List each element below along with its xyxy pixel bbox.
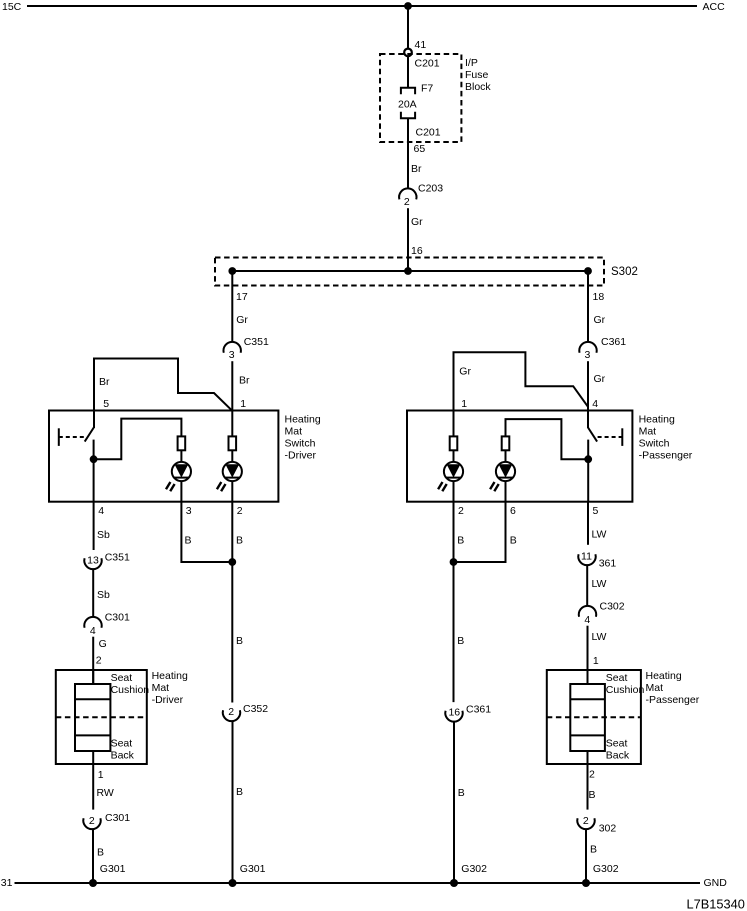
resistor in LED4 branch bbox=[502, 436, 510, 450]
wire driver pin 4 to C351-13 bbox=[93, 502, 95, 550]
wire 361-11 to C302-4 bbox=[586, 565, 588, 606]
svg-text:G: G bbox=[99, 638, 107, 650]
fuse F7 bottom bracket bbox=[401, 112, 415, 119]
svg-text:Gr: Gr bbox=[459, 366, 471, 378]
fuse F7 top bracket bbox=[401, 88, 415, 95]
svg-text:B: B bbox=[457, 535, 464, 547]
svg-text:2: 2 bbox=[89, 815, 95, 827]
svg-text:Heating: Heating bbox=[639, 414, 675, 426]
switch actuator dashed link passenger bbox=[598, 436, 623, 438]
connector C361 pin 16 cup bbox=[445, 711, 462, 722]
junction ground G301 left bbox=[89, 879, 97, 887]
svg-text:Br: Br bbox=[99, 376, 110, 388]
svg-text:B: B bbox=[236, 786, 243, 798]
resistor in LED1 branch bbox=[178, 436, 186, 450]
element divider 2 bbox=[75, 734, 110, 736]
wire C301-4 to seat module driver bbox=[92, 637, 94, 684]
wire common to LED4 branch bbox=[506, 419, 589, 459]
wire C301-2 to ground G301 bbox=[92, 829, 94, 883]
wire pin1 to resistor 3 bbox=[453, 411, 455, 437]
svg-text:2: 2 bbox=[96, 655, 102, 667]
element divider 1 bbox=[75, 698, 110, 700]
svg-text:Seat: Seat bbox=[111, 672, 133, 684]
junction ground G301 right bbox=[229, 879, 237, 887]
heating mat switch passenger box bbox=[407, 411, 632, 502]
svg-text:1: 1 bbox=[98, 769, 104, 781]
wire from pin41 to fuse F7 bbox=[407, 57, 409, 89]
svg-text:3: 3 bbox=[229, 349, 235, 361]
switch actuator tick passenger bbox=[621, 428, 623, 446]
svg-text:Mat: Mat bbox=[152, 682, 170, 694]
wire resistor to LED4 bbox=[505, 450, 507, 501]
svg-text:Back: Back bbox=[606, 750, 630, 762]
svg-text:-Passenger: -Passenger bbox=[639, 450, 693, 462]
svg-text:Seat: Seat bbox=[606, 738, 628, 750]
svg-text:B: B bbox=[589, 789, 596, 801]
svg-text:Heating: Heating bbox=[646, 670, 682, 682]
svg-text:Sb: Sb bbox=[97, 589, 110, 601]
wire passenger pin 5 to 361-11 bbox=[587, 502, 589, 545]
junction switch common driver bbox=[90, 455, 98, 463]
svg-text:2: 2 bbox=[228, 706, 234, 718]
LED D1 bbox=[166, 462, 191, 491]
wire resistor to LED3 bbox=[453, 450, 455, 501]
svg-text:302: 302 bbox=[599, 823, 617, 835]
svg-text:C351: C351 bbox=[244, 336, 269, 348]
switch actuator tick driver bbox=[58, 428, 60, 446]
svg-text:Back: Back bbox=[111, 750, 135, 762]
junction ground G302 right bbox=[582, 879, 590, 887]
svg-text:17: 17 bbox=[236, 291, 248, 303]
svg-text:-Driver: -Driver bbox=[152, 694, 184, 706]
svg-text:B: B bbox=[510, 535, 517, 547]
wire passenger pin 2 down to C361-16 bbox=[453, 502, 455, 702]
splice bus wire bbox=[232, 270, 588, 272]
wire stub into seat element top bbox=[92, 670, 94, 684]
wire jog from switch pin 5 to pin 1 bbox=[94, 359, 232, 411]
svg-text:1: 1 bbox=[593, 655, 599, 667]
switch blade driver bbox=[85, 428, 94, 442]
svg-text:B: B bbox=[236, 635, 243, 647]
resistor in LED2 branch bbox=[229, 436, 237, 450]
wire from top rail to fuse block pin 41 bbox=[407, 6, 409, 48]
svg-text:G301: G301 bbox=[240, 863, 266, 875]
dashed cushion/back divider driver bbox=[56, 716, 147, 718]
svg-text:1: 1 bbox=[240, 398, 246, 410]
connector circle pin 41 C201 bbox=[404, 49, 412, 57]
svg-text:B: B bbox=[590, 844, 597, 856]
svg-text:4: 4 bbox=[584, 614, 590, 626]
svg-text:B: B bbox=[185, 535, 192, 547]
svg-text:Br: Br bbox=[239, 375, 250, 387]
wire top power rail 15C-ACC bbox=[27, 5, 697, 7]
svg-text:C361: C361 bbox=[601, 336, 626, 348]
svg-text:G302: G302 bbox=[461, 863, 487, 875]
svg-text:31: 31 bbox=[1, 877, 13, 889]
svg-text:C351: C351 bbox=[105, 552, 130, 564]
svg-text:2: 2 bbox=[583, 815, 589, 827]
LED D3 bbox=[438, 462, 463, 491]
seat heating element driver bbox=[75, 684, 110, 751]
svg-text:C203: C203 bbox=[418, 183, 443, 195]
connector C351 pin 13 cup bbox=[84, 558, 101, 569]
svg-text:Mat: Mat bbox=[646, 682, 664, 694]
svg-text:B: B bbox=[458, 787, 465, 799]
svg-text:Heating: Heating bbox=[152, 670, 188, 682]
connector 361 pin 11 cup bbox=[578, 554, 595, 565]
junction switch common passenger bbox=[584, 455, 592, 463]
svg-text:C301: C301 bbox=[105, 812, 130, 824]
svg-text:Gr: Gr bbox=[411, 216, 423, 228]
connector C203 cap bbox=[399, 188, 416, 199]
svg-text:2: 2 bbox=[458, 505, 464, 517]
switch blade passenger bbox=[588, 428, 597, 442]
svg-text:C302: C302 bbox=[600, 601, 625, 613]
svg-text:ACC: ACC bbox=[703, 1, 726, 13]
wire switch common to pin 4 bbox=[93, 440, 95, 502]
wire S302 pin 18 down to C361 bbox=[587, 271, 589, 342]
wire resistor to LED2 bbox=[231, 450, 233, 501]
wire from fuse to C203 bbox=[407, 118, 409, 189]
svg-text:6: 6 bbox=[510, 505, 516, 517]
wire C351-3 to switch pin 1 bbox=[231, 361, 233, 411]
svg-text:16: 16 bbox=[448, 707, 460, 719]
svg-text:LW: LW bbox=[592, 529, 607, 541]
connector C351 pin 3 cap bbox=[223, 342, 240, 353]
svg-text:Br: Br bbox=[411, 163, 422, 175]
wire C203 to S302 bbox=[407, 208, 409, 271]
wire resistor to LED1 bbox=[180, 450, 182, 501]
svg-text:L7B15340: L7B15340 bbox=[687, 897, 745, 911]
svg-text:-Passenger: -Passenger bbox=[646, 694, 700, 706]
wire passenger pin 6 to pin 2 join bbox=[454, 502, 506, 562]
wire driver pin 2 down to C352 bbox=[231, 502, 233, 703]
svg-text:LW: LW bbox=[592, 631, 607, 643]
junction S302 left bbox=[228, 267, 236, 275]
wire seat element bottom to 302-2 bbox=[587, 751, 589, 810]
svg-text:41: 41 bbox=[415, 39, 427, 51]
svg-text:Switch: Switch bbox=[285, 438, 316, 450]
svg-text:C201: C201 bbox=[415, 58, 440, 70]
svg-text:LW: LW bbox=[592, 578, 607, 590]
svg-text:3: 3 bbox=[186, 505, 192, 517]
wire C351-13 to C301-4 bbox=[92, 569, 94, 617]
svg-text:Gr: Gr bbox=[594, 373, 606, 385]
wire C361-16 to ground G302 bbox=[453, 722, 455, 883]
LED D4 bbox=[490, 462, 515, 491]
wire driver pin 3 to pin 2 join bbox=[181, 502, 232, 562]
svg-text:65: 65 bbox=[414, 143, 426, 155]
svg-text:GND: GND bbox=[704, 877, 728, 889]
svg-text:Gr: Gr bbox=[236, 314, 248, 326]
connector C361 pin 3 cap bbox=[579, 342, 596, 353]
wire pin4 stub into switch bbox=[587, 411, 589, 429]
svg-text:16: 16 bbox=[411, 245, 423, 257]
junction ground G302 left bbox=[450, 879, 458, 887]
resistor in LED3 branch bbox=[450, 436, 458, 450]
wire pin1 to resistor 2 bbox=[231, 411, 233, 437]
wire 302-2 to ground G302 bbox=[585, 829, 587, 883]
wire common to LED1 branch bbox=[94, 419, 182, 460]
svg-text:Seat: Seat bbox=[606, 672, 628, 684]
svg-text:2: 2 bbox=[404, 196, 410, 208]
junction S302 middle bbox=[404, 267, 412, 275]
junction on top rail bbox=[404, 2, 412, 10]
LED D2 bbox=[217, 462, 242, 491]
svg-text:Sb: Sb bbox=[97, 529, 110, 541]
wire pin5 stub into switch bbox=[93, 411, 95, 429]
connector C301 pin 4 cap bbox=[84, 617, 101, 628]
connector C301 pin 2 cup bbox=[83, 818, 100, 829]
I/P fuse block dashed box bbox=[380, 54, 461, 142]
wire C302-4 to seat module passenger bbox=[587, 626, 589, 684]
svg-text:I/P: I/P bbox=[465, 57, 478, 69]
wire C361-3 to switch pin 4 bbox=[587, 361, 589, 411]
wire switch common to pin 5 bbox=[587, 440, 589, 502]
svg-text:Mat: Mat bbox=[639, 426, 657, 438]
svg-text:4: 4 bbox=[98, 505, 104, 517]
svg-text:18: 18 bbox=[593, 291, 605, 303]
svg-text:5: 5 bbox=[103, 398, 109, 410]
wire C352 to ground G301 bbox=[232, 721, 234, 883]
svg-text:2: 2 bbox=[237, 505, 243, 517]
svg-text:1: 1 bbox=[461, 398, 467, 410]
svg-text:G301: G301 bbox=[100, 863, 126, 875]
element divider 2 passenger bbox=[570, 734, 605, 736]
svg-text:Fuse: Fuse bbox=[465, 69, 489, 81]
svg-text:C201: C201 bbox=[416, 127, 441, 139]
svg-text:S302: S302 bbox=[611, 266, 638, 278]
heating mat passenger seat box bbox=[547, 670, 641, 764]
svg-text:11: 11 bbox=[581, 551, 592, 563]
svg-text:Cushion: Cushion bbox=[606, 684, 645, 696]
svg-text:20A: 20A bbox=[398, 99, 417, 111]
wire stub into seat element top passenger bbox=[587, 670, 589, 684]
svg-text:G302: G302 bbox=[593, 863, 619, 875]
svg-text:C352: C352 bbox=[243, 703, 268, 715]
svg-text:B: B bbox=[236, 535, 243, 547]
svg-text:Block: Block bbox=[465, 81, 491, 93]
svg-text:13: 13 bbox=[87, 554, 99, 566]
svg-text:F7: F7 bbox=[421, 83, 433, 95]
svg-text:Mat: Mat bbox=[285, 426, 303, 438]
junction pin6/pin2 B wires bbox=[450, 558, 458, 566]
svg-text:C361: C361 bbox=[466, 703, 491, 715]
svg-text:Heating: Heating bbox=[285, 414, 321, 426]
switch actuator dashed link driver bbox=[59, 436, 85, 438]
svg-text:4: 4 bbox=[592, 398, 598, 410]
svg-text:B: B bbox=[457, 635, 464, 647]
svg-text:B: B bbox=[97, 847, 104, 859]
svg-text:15C: 15C bbox=[2, 1, 22, 13]
connector 302 pin 2 cup bbox=[577, 818, 594, 829]
svg-text:2: 2 bbox=[589, 769, 595, 781]
heating mat switch driver box bbox=[49, 411, 278, 502]
wire S302 pin 17 down to C351 bbox=[231, 271, 233, 342]
svg-text:Seat: Seat bbox=[111, 738, 133, 750]
connector C302 pin 4 cap bbox=[579, 606, 596, 617]
svg-text:C301: C301 bbox=[105, 612, 130, 624]
svg-text:3: 3 bbox=[584, 349, 590, 361]
junction S302 right bbox=[584, 267, 592, 275]
svg-text:RW: RW bbox=[97, 787, 114, 799]
svg-text:361: 361 bbox=[599, 558, 617, 570]
splice S302 dashed box bbox=[215, 258, 604, 286]
svg-text:5: 5 bbox=[593, 505, 599, 517]
element divider 1 passenger bbox=[570, 698, 605, 700]
svg-text:Cushion: Cushion bbox=[111, 684, 150, 696]
heating mat driver seat box bbox=[56, 670, 147, 764]
connector C352 pin 2 cup bbox=[223, 710, 240, 721]
junction pin3/pin2 B wires bbox=[228, 558, 236, 566]
svg-text:Switch: Switch bbox=[639, 438, 670, 450]
seat heating element passenger bbox=[570, 684, 605, 751]
wire jog from switch pin 1 to pin 4 bbox=[454, 352, 589, 411]
wire seat element bottom to C301-2 bbox=[92, 751, 94, 810]
dashed cushion/back divider passenger bbox=[547, 716, 641, 718]
svg-text:-Driver: -Driver bbox=[285, 450, 317, 462]
svg-text:Gr: Gr bbox=[594, 314, 606, 326]
svg-text:4: 4 bbox=[90, 625, 96, 637]
wire bottom ground rail 31-GND bbox=[15, 882, 701, 884]
